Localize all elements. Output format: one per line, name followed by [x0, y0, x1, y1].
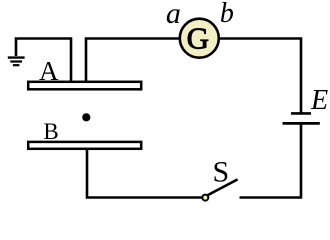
galvanometer G: [180, 19, 219, 58]
charged particle dot: [82, 113, 90, 121]
svg-text:b: b: [220, 0, 234, 29]
switch S pivot: [202, 195, 208, 201]
switch S blade: [208, 179, 238, 195]
svg-text:B: B: [43, 119, 58, 144]
wire ground to plate A (top-left): [16, 39, 71, 83]
svg-text:E: E: [310, 85, 328, 116]
svg-text:A: A: [39, 56, 59, 86]
battery E plate long: [283, 122, 320, 125]
wire battery to switch contact: [240, 123, 302, 197]
plate B: [28, 142, 141, 149]
battery E plate short: [291, 112, 311, 115]
wire switch to plate B: [87, 150, 202, 198]
plate A: [28, 82, 141, 90]
svg-text:S: S: [212, 155, 229, 188]
wire plate A to galvanometer: [86, 39, 182, 83]
svg-text:a: a: [166, 0, 181, 30]
ground: [8, 58, 25, 66]
svg-text:G: G: [187, 21, 209, 56]
wire galvanometer to battery: [217, 39, 301, 114]
